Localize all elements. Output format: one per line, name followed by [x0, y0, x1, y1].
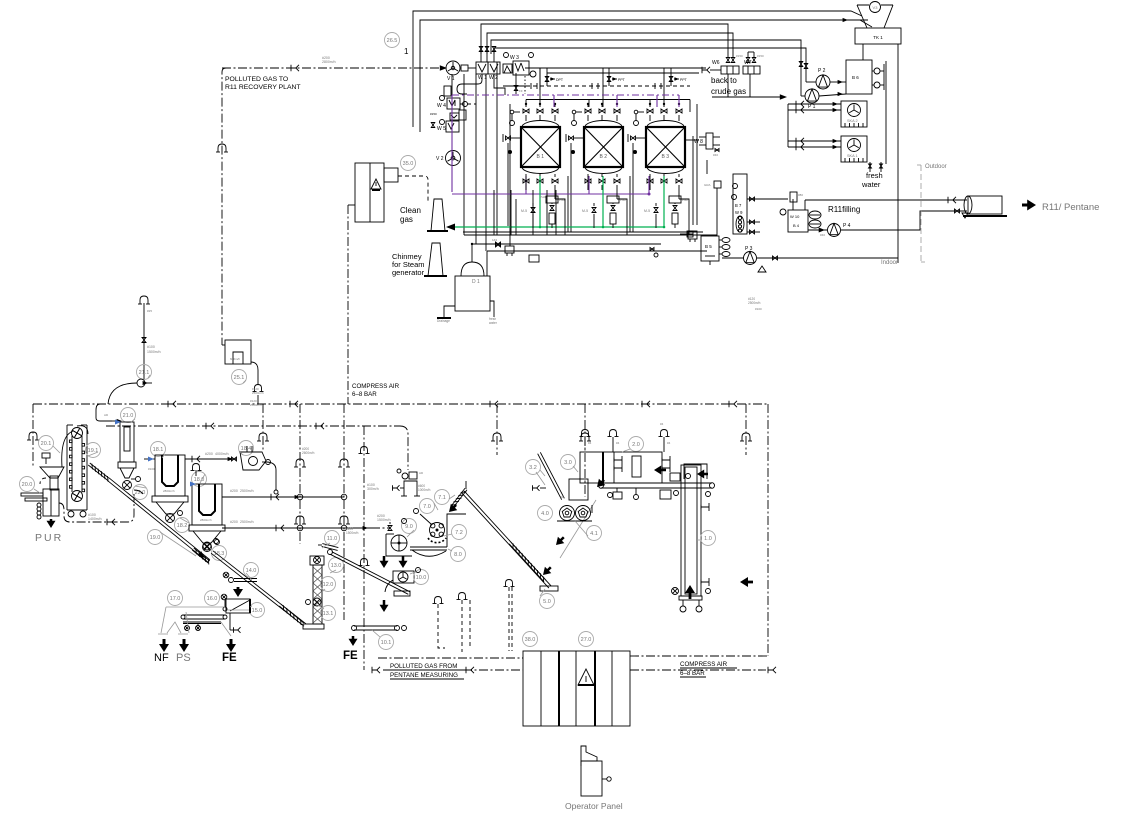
svg-text:PuR: PuR [540, 195, 547, 199]
svg-text:#4: #4 [616, 441, 620, 445]
svg-text:PENTANE MEASURING: PENTANE MEASURING [390, 672, 458, 679]
svg-text:1: 1 [404, 47, 409, 56]
svg-text:12.0: 12.0 [323, 582, 334, 588]
svg-text:#150: #150 [736, 54, 743, 58]
svg-text:R11 RECOVERY PLANT: R11 RECOVERY PLANT [225, 84, 301, 91]
svg-text:300m/h: 300m/h [367, 487, 379, 491]
svg-text:P 2: P 2 [818, 68, 826, 74]
svg-text:2800m/h: 2800m/h [200, 518, 212, 522]
svg-text:P 3: P 3 [745, 246, 753, 252]
svg-text:2500m/h: 2500m/h [250, 403, 262, 407]
svg-text:2800m/h: 2800m/h [163, 489, 175, 493]
svg-text:2500m/h: 2500m/h [748, 301, 761, 305]
svg-text:21.0: 21.0 [123, 413, 134, 419]
svg-text:27.0: 27.0 [581, 637, 592, 643]
svg-text:R11filling: R11filling [828, 205, 860, 214]
svg-text:14.0: 14.0 [246, 568, 257, 574]
svg-text:#40: #40 [820, 233, 825, 237]
svg-text:V 1: V 1 [447, 76, 455, 82]
svg-text:V3: V3 [873, 5, 879, 10]
svg-text:W 10: W 10 [790, 214, 800, 219]
svg-text:FE: FE [343, 650, 358, 662]
svg-text:1500m/h: 1500m/h [346, 531, 359, 535]
svg-text:11.0: 11.0 [327, 536, 337, 542]
svg-text:16.0: 16.0 [207, 596, 218, 602]
svg-text:B 6: B 6 [852, 75, 859, 80]
svg-text:10.0: 10.0 [416, 575, 427, 581]
svg-text:P 4: P 4 [843, 223, 851, 229]
svg-text:W6: W6 [712, 60, 720, 66]
svg-text:19.1: 19.1 [88, 448, 99, 454]
svg-text:1500m/h: 1500m/h [147, 350, 161, 354]
svg-text:9.0: 9.0 [405, 524, 413, 530]
svg-text:B 7: B 7 [735, 203, 742, 208]
svg-text:B 2: B 2 [600, 154, 608, 160]
svg-text:2800m/h: 2800m/h [322, 60, 336, 64]
svg-text:7.1: 7.1 [438, 495, 446, 501]
svg-text:POLLUTED GAS TO: POLLUTED GAS TO [225, 76, 288, 83]
svg-text:GRA: GRA [704, 183, 711, 187]
svg-text:2600m/h: 2600m/h [302, 451, 315, 455]
svg-text:18.1: 18.1 [153, 447, 164, 453]
svg-text:PUR: PUR [35, 532, 63, 544]
svg-text:crude gas: crude gas [711, 87, 746, 96]
svg-text:B 4: B 4 [793, 223, 800, 228]
svg-text:gas: gas [400, 215, 413, 224]
svg-text:FF: FF [519, 89, 523, 93]
svg-text:#40: #40 [713, 153, 718, 157]
svg-text:4000m/h: 4000m/h [215, 452, 229, 456]
svg-text:1000m/h: 1000m/h [418, 488, 431, 492]
svg-text:20.1: 20.1 [41, 441, 52, 447]
svg-text:2500m/h: 2500m/h [240, 520, 254, 524]
svg-text:19.0: 19.0 [150, 535, 161, 541]
svg-text:M-5: M-5 [521, 209, 527, 213]
svg-text:DPT: DPT [556, 78, 564, 82]
svg-text:#150: #150 [430, 112, 437, 116]
svg-text:1.0: 1.0 [704, 536, 712, 542]
svg-text:20.0: 20.0 [22, 482, 33, 488]
svg-text:back to: back to [711, 76, 737, 85]
svg-text:SKA 1: SKA 1 [847, 154, 858, 158]
svg-text:#100: #100 [147, 345, 155, 349]
svg-text:17.0: 17.0 [170, 596, 181, 602]
svg-text:#200: #200 [205, 452, 213, 456]
svg-text:3.0: 3.0 [564, 460, 572, 466]
svg-text:PS: PS [176, 652, 191, 664]
svg-text:Operator Panel: Operator Panel [565, 801, 623, 811]
svg-text:26.5: 26.5 [387, 38, 398, 44]
svg-text:NF: NF [154, 652, 169, 664]
svg-text:6–8 BAR: 6–8 BAR [680, 670, 705, 677]
svg-text:2.0: 2.0 [632, 442, 640, 448]
svg-text:4.1: 4.1 [590, 531, 598, 537]
svg-text:#4: #4 [660, 422, 664, 426]
svg-text:water: water [489, 321, 498, 325]
svg-text:#100: #100 [755, 307, 762, 311]
svg-text:M-5: M-5 [582, 209, 588, 213]
svg-text:2500m/h: 2500m/h [240, 489, 254, 493]
svg-text:Outdoor: Outdoor [925, 164, 947, 170]
svg-text:D 1: D 1 [472, 279, 480, 285]
svg-text:W 5: W 5 [437, 126, 446, 132]
svg-text:W 4: W 4 [437, 103, 446, 109]
svg-text:4.0: 4.0 [541, 511, 549, 517]
svg-text:B 5: B 5 [705, 244, 712, 249]
svg-text:COMPRESS AIR: COMPRESS AIR [680, 661, 728, 668]
svg-text:POLLUTED GAS FROM: POLLUTED GAS FROM [390, 663, 457, 670]
svg-text:21.1: 21.1 [139, 370, 150, 376]
svg-text:8.0: 8.0 [454, 552, 462, 558]
svg-text:7.0: 7.0 [423, 504, 431, 510]
svg-text:generator: generator [392, 268, 425, 277]
svg-text:7.2: 7.2 [455, 530, 463, 536]
svg-text:R11/ Pentane: R11/ Pentane [1042, 202, 1099, 213]
svg-text:V 2: V 2 [436, 156, 444, 162]
svg-text:1#4: 1#4 [492, 238, 497, 242]
svg-text:TK 1: TK 1 [873, 35, 883, 40]
svg-text:600m/h: 600m/h [230, 357, 240, 361]
svg-text:B 3: B 3 [662, 154, 670, 160]
svg-text:Clean: Clean [400, 206, 421, 215]
svg-text:1500m/h: 1500m/h [377, 518, 391, 522]
svg-text:water: water [861, 180, 881, 189]
svg-text:FE: FE [222, 652, 237, 664]
svg-text:fresh: fresh [866, 171, 883, 180]
svg-text:13.0: 13.0 [331, 563, 342, 569]
svg-text:PPT: PPT [680, 78, 688, 82]
svg-text:10.1: 10.1 [381, 640, 392, 646]
svg-text:#200: #200 [230, 489, 238, 493]
svg-text:#4: #4 [667, 441, 671, 445]
svg-text:SKA 2: SKA 2 [847, 119, 858, 123]
svg-text:P 1: P 1 [808, 104, 816, 110]
svg-text:3.2: 3.2 [529, 465, 537, 471]
svg-text:W 9: W 9 [735, 210, 743, 215]
svg-text:Indoor: Indoor [881, 260, 898, 266]
svg-text:18.4: 18.4 [241, 446, 252, 452]
svg-text:#150: #150 [757, 54, 764, 58]
svg-text:5.0: 5.0 [543, 599, 551, 605]
svg-text:#4: #4 [588, 441, 592, 445]
svg-text:15.0: 15.0 [252, 608, 263, 614]
svg-text:W 3: W 3 [510, 55, 519, 61]
svg-text:25.1: 25.1 [234, 375, 245, 381]
svg-text:13.1: 13.1 [323, 611, 334, 617]
svg-text:#80: #80 [798, 193, 803, 197]
svg-text:6–8 BAR: 6–8 BAR [352, 391, 377, 398]
svg-text:18.2: 18.2 [177, 523, 188, 529]
svg-text:PPT: PPT [618, 78, 626, 82]
svg-text:Drainage: Drainage [437, 319, 450, 323]
svg-text:35.0: 35.0 [403, 161, 414, 167]
svg-text:#200: #200 [230, 520, 238, 524]
svg-text:COMPRESS AIR: COMPRESS AIR [352, 383, 400, 390]
svg-text:B 1: B 1 [537, 154, 545, 160]
svg-text:M-5: M-5 [644, 209, 650, 213]
svg-text:38.0: 38.0 [525, 637, 536, 643]
svg-text:#100: #100 [148, 467, 155, 471]
svg-text:2500m/h: 2500m/h [252, 391, 264, 395]
svg-text:1400m/h: 1400m/h [88, 517, 102, 521]
svg-text:#25: #25 [147, 309, 152, 313]
